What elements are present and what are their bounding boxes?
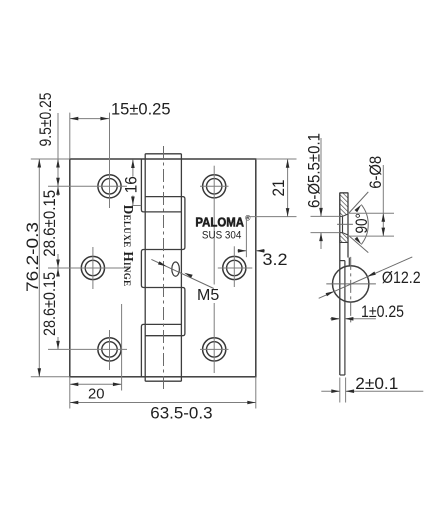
countersunk screw hole mid-left bbox=[81, 256, 104, 279]
crosshair mid-left hole bbox=[48, 247, 128, 289]
svg-text:9.5±0.25: 9.5±0.25 bbox=[37, 93, 55, 147]
section hatch lower block bbox=[340, 233, 348, 243]
SUS 304 label bbox=[202, 230, 241, 242]
dimension 2&#177;0.1 bbox=[321, 375, 423, 403]
hatch pattern def bbox=[0, 0, 1, 1]
dimension 16 bbox=[122, 160, 141, 206]
side view leaf bar outline bbox=[340, 193, 348, 375]
countersunk screw hole top-left bbox=[98, 175, 121, 198]
dimension 28.6&#177;0.15 lower bbox=[41, 268, 60, 349]
section hatch upper block bbox=[340, 193, 348, 217]
svg-text:90°: 90° bbox=[352, 213, 371, 234]
svg-text:63.5-0.3: 63.5-0.3 bbox=[150, 404, 212, 422]
svg-text:21: 21 bbox=[270, 180, 288, 197]
dimension 9.5&#177;0.25 bbox=[37, 93, 60, 187]
M5 leader line bbox=[151, 259, 213, 288]
svg-text:SUS 304: SUS 304 bbox=[202, 230, 241, 242]
svg-text:28.6±0.15: 28.6±0.15 bbox=[41, 190, 59, 257]
svg-text:16: 16 bbox=[122, 176, 140, 193]
DELUXE HINGE text bbox=[121, 205, 136, 287]
knuckle circle (side view) bbox=[333, 266, 369, 302]
countersink 90&#176; arc bbox=[352, 205, 371, 245]
crosshair top-right hole bbox=[200, 166, 229, 285]
svg-text:Ø12.2: Ø12.2 bbox=[382, 269, 421, 287]
dimension 63.5-0.3 bbox=[70, 377, 256, 423]
svg-text:6-Ø5.5±0.1: 6-Ø5.5±0.1 bbox=[306, 133, 324, 208]
oil hole ellipse on barrel bbox=[172, 262, 180, 276]
crosshair mid-right hole bbox=[218, 246, 253, 287]
barrel knuckle column outline bbox=[145, 154, 181, 381]
svg-text:28.6±0.15: 28.6±0.15 bbox=[41, 272, 59, 336]
countersunk screw hole bottom-left bbox=[98, 338, 121, 361]
side bar bottom end bbox=[340, 374, 345, 376]
PALOMA logo bbox=[195, 214, 251, 229]
crosshair bottom-left hole bbox=[48, 330, 127, 370]
countersunk screw hole bottom-right bbox=[203, 338, 226, 361]
dimension 6-&#216;5.5&#177;0.1 bbox=[306, 133, 340, 249]
hinge leaf plate outline (front view) bbox=[70, 159, 256, 377]
svg-text:3.2: 3.2 bbox=[263, 251, 288, 269]
countersink bore edge line bbox=[342, 217, 344, 233]
countersunk screw hole top-right bbox=[203, 175, 226, 198]
dimension 3.2 bbox=[238, 217, 288, 270]
dimension 76.2-0.3 bbox=[24, 159, 70, 377]
dimension 21 bbox=[248, 159, 296, 217]
svg-text:20: 20 bbox=[88, 387, 105, 403]
dimension 1&#177;0.25 bbox=[330, 303, 404, 321]
countersunk screw hole mid-right bbox=[223, 256, 246, 279]
svg-text:M5: M5 bbox=[197, 287, 219, 304]
svg-text:1±0.25: 1±0.25 bbox=[361, 303, 404, 321]
countersink 90&#176; cone lines bbox=[348, 192, 368, 253]
svg-text:PALOMA: PALOMA bbox=[195, 215, 244, 230]
leaf curl into knuckle bbox=[340, 258, 350, 376]
crosshair bottom-right hole bbox=[200, 303, 229, 373]
svg-text:2±0.1: 2±0.1 bbox=[355, 375, 398, 393]
svg-text:Deluxe Hinge: Deluxe Hinge bbox=[121, 205, 136, 287]
hole center line (side view) bbox=[337, 223, 353, 225]
knuckle circle center lines bbox=[326, 257, 376, 324]
svg-text:15±0.25: 15±0.25 bbox=[111, 101, 171, 119]
svg-text:6-Ø8: 6-Ø8 bbox=[367, 156, 385, 189]
dimension 20 bbox=[70, 304, 122, 403]
svg-text:76.2-0.3: 76.2-0.3 bbox=[24, 222, 42, 292]
dimension 6-&#216;8 bbox=[348, 156, 394, 236]
left leaf notch edge (top) bbox=[141, 159, 181, 212]
crosshair top-left hole bbox=[48, 113, 127, 208]
dimension &#216;12.2 bbox=[319, 257, 421, 298]
left leaf notch edge (bottom) bbox=[141, 324, 181, 376]
barrel center line bbox=[163, 146, 165, 389]
dimension 28.6&#177;0.15 upper bbox=[41, 186, 60, 268]
dimension 15&#177;0.25 bbox=[70, 101, 171, 160]
label M5 bbox=[197, 287, 219, 304]
knuckle junction K1/K2 with bearing sleeve bbox=[141, 197, 185, 336]
